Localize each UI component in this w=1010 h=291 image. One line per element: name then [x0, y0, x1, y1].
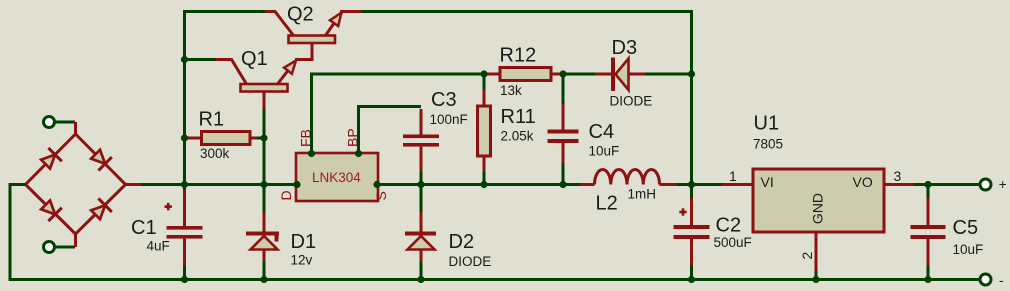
diode D3: [595, 58, 645, 92]
R12 body: [500, 68, 551, 81]
D1 cathode bar: [246, 232, 279, 236]
Q1 emitter lead: [278, 62, 296, 85]
svg-text:D3: D3: [612, 37, 638, 59]
node C3-D2 rail: [417, 181, 424, 188]
C3 top lead: [420, 109, 423, 135]
svg-text:GND: GND: [810, 193, 826, 224]
svg-text:-: -: [999, 273, 1004, 288]
U1 GND lead: [815, 232, 818, 273]
wire bridge top lead: [74, 122, 77, 135]
svg-text:U1: U1: [754, 113, 780, 135]
C2 bottom lead: [690, 239, 693, 268]
resistor R11: [478, 74, 491, 185]
wire D3 to right bus: [645, 73, 692, 76]
diode bridge top-right: [89, 148, 112, 171]
C5 bottom plate: [911, 235, 946, 239]
wire R1 right to Q1 base node: [256, 137, 264, 140]
node left bus / Q1 feed: [181, 56, 188, 63]
node FB-R12-R11: [480, 70, 487, 77]
zener diode D1: [246, 185, 279, 280]
U1 body: [753, 169, 884, 232]
node C2 bottom rail: [688, 276, 695, 283]
wire BP riser to C3: [359, 107, 422, 154]
wire input top to bridge: [55, 121, 75, 124]
C3 top plate: [403, 135, 439, 139]
C5 bottom lead: [927, 239, 930, 268]
svg-text:LNK304: LNK304: [312, 170, 361, 185]
C1 bottom plate: [167, 235, 203, 239]
C1 bottom lead: [183, 239, 186, 268]
node R11 rail: [480, 181, 487, 188]
svg-text:C3: C3: [431, 89, 457, 111]
C1 plus mark: [165, 205, 172, 208]
C5 top plate: [911, 225, 946, 229]
capacitor C4: [548, 74, 579, 185]
svg-text:+: +: [999, 177, 1007, 192]
svg-text:D2: D2: [449, 231, 475, 253]
wire bridge left to bottom rail: [10, 185, 980, 280]
diode bridge bottom-left: [39, 198, 62, 221]
R12 left lead: [484, 73, 500, 76]
wire Q1 base feed: [185, 58, 217, 61]
L2 coil: [595, 169, 660, 184]
R1 left lead: [188, 137, 202, 140]
Q1 base bar: [241, 84, 288, 92]
node D2 bottom rail: [417, 276, 424, 283]
svg-text:D: D: [278, 190, 294, 200]
diode D2: [405, 185, 436, 280]
svg-text:2: 2: [799, 252, 815, 260]
transistor Q2: [265, 12, 362, 60]
svg-text:300k: 300k: [200, 146, 230, 161]
node C4 rail: [559, 181, 566, 188]
resistor R1: [188, 132, 257, 145]
D2 cathode bar: [405, 232, 436, 236]
svg-text:4uF: 4uF: [147, 239, 170, 254]
C4 bottom plate: [548, 139, 579, 143]
svg-text:10uF: 10uF: [589, 144, 620, 159]
svg-text:C4: C4: [589, 121, 615, 143]
wire Q1 collector lead: [216, 60, 247, 85]
svg-text:R1: R1: [199, 109, 225, 131]
node L2-C2-U1: [688, 181, 695, 188]
D2 top lead: [420, 185, 423, 215]
svg-text:Q1: Q1: [241, 48, 268, 70]
svg-text:12v: 12v: [291, 253, 313, 268]
node R12-C4-D3: [559, 70, 566, 77]
C4 top plate: [548, 130, 579, 134]
wire input bottom to bridge: [55, 246, 75, 249]
C4 top lead: [562, 74, 565, 106]
resistor R12: [484, 68, 563, 81]
svg-text:VI: VI: [761, 174, 774, 190]
L2 left lead: [581, 183, 595, 186]
wire top rail right of Q2: [362, 12, 692, 185]
wire VO to output: [914, 183, 980, 186]
node pin FB: [308, 150, 315, 157]
C4 bottom lead: [562, 143, 565, 165]
wire bridge diamond: [26, 134, 126, 234]
inductor L2: [581, 169, 678, 184]
svg-text:13k: 13k: [500, 83, 522, 98]
node D1 bottom rail: [260, 276, 267, 283]
D1 bottom lead: [263, 250, 266, 265]
regulator U1 7805: [722, 168, 914, 280]
terminal input bottom: [44, 242, 55, 253]
svg-text:Q2: Q2: [287, 4, 314, 26]
wire right node to U1: [692, 183, 723, 186]
wire left vertical bus: [185, 12, 266, 185]
C2 bottom plate: [674, 235, 710, 239]
D3 cathode bar: [611, 58, 615, 92]
D1 triangle: [251, 236, 278, 250]
diode bridge bottom-right: [89, 198, 112, 221]
bridge rectifier BR1: [26, 122, 142, 247]
R12 right lead: [551, 73, 563, 76]
wire FB riser and top net: [312, 74, 485, 153]
capacitor C1: [165, 185, 203, 280]
wire bridge right stub: [126, 183, 142, 186]
Q1 base pin: [263, 92, 266, 110]
capacitor C3: [403, 109, 439, 185]
C1 top lead: [183, 185, 186, 193]
svg-text:1mH: 1mH: [628, 187, 657, 202]
svg-text:DIODE: DIODE: [610, 94, 653, 109]
svg-text:R11: R11: [501, 106, 536, 128]
svg-text:L2: L2: [596, 193, 618, 215]
svg-text:DIODE: DIODE: [449, 254, 492, 269]
C3 bottom lead: [420, 147, 423, 174]
capacitor C2: [674, 185, 710, 280]
Q1 emitter arrow: [284, 61, 296, 74]
LNK304 body: [296, 153, 378, 201]
svg-text:3: 3: [894, 168, 902, 184]
svg-text:10uF: 10uF: [953, 242, 984, 257]
R11 top lead: [483, 74, 486, 92]
svg-text:D1: D1: [291, 231, 317, 253]
node R1-Q1 base: [260, 134, 267, 141]
node D1 rail: [260, 181, 267, 188]
C1 top plate: [167, 226, 203, 230]
node D3 right bus: [688, 70, 695, 77]
Q2 base lead: [295, 43, 312, 60]
C2 top plate: [674, 225, 710, 229]
wire S pin rail: [378, 183, 581, 186]
D1 top lead: [263, 185, 266, 215]
terminal input top: [44, 117, 55, 128]
L2 right lead: [660, 183, 678, 186]
svg-text:R12: R12: [500, 45, 537, 67]
U1 VO lead: [884, 183, 914, 186]
node C5 top: [924, 181, 931, 188]
C2 plus mark: [679, 211, 686, 214]
R11 body: [478, 106, 491, 156]
D2 triangle: [408, 236, 435, 250]
D3 triangle: [616, 59, 629, 91]
node left bus / rail: [181, 181, 188, 188]
svg-text:2.05k: 2.05k: [501, 129, 534, 144]
Q2 emitter lead: [326, 12, 362, 36]
svg-text:1: 1: [729, 168, 737, 184]
node pin S: [373, 181, 380, 188]
svg-text:7805: 7805: [753, 137, 783, 152]
svg-text:S: S: [373, 191, 389, 200]
capacitor C5: [911, 185, 946, 280]
Q2 emitter arrow: [330, 13, 342, 27]
node U1 GND bottom rail: [812, 276, 819, 283]
D3 left lead: [595, 73, 611, 76]
wire Q2 collector lead: [265, 12, 294, 36]
R1 body: [202, 132, 251, 145]
node C1 bottom rail: [181, 276, 188, 283]
wire main DC rail left: [141, 183, 296, 186]
svg-text:C1: C1: [131, 217, 157, 239]
terminal output minus: [980, 274, 991, 285]
node pin BP: [355, 150, 362, 157]
R11 bottom lead: [483, 156, 486, 174]
node pin D: [293, 181, 300, 188]
C5 top lead: [927, 185, 930, 201]
wire R1 left stub: [185, 137, 191, 140]
svg-text:100nF: 100nF: [430, 112, 468, 127]
C2 top lead: [690, 185, 693, 201]
terminal output plus: [980, 179, 991, 190]
diode bridge top-left: [39, 148, 62, 171]
Q2 base bar: [289, 36, 336, 44]
svg-text:500uF: 500uF: [714, 235, 752, 250]
wire R12 to D3: [563, 73, 596, 76]
C3 bottom plate: [403, 143, 439, 147]
transistor Q1: [216, 60, 296, 110]
D2 bottom lead: [420, 250, 423, 265]
svg-text:C2: C2: [716, 215, 742, 237]
wire L2 to right node: [677, 183, 692, 186]
U1 VI lead: [722, 183, 753, 186]
wire Q1 base down to rail: [263, 109, 266, 185]
D1 zener tail: [275, 236, 279, 242]
IC U2 LNK304: [278, 128, 389, 201]
R1 right lead: [250, 137, 257, 140]
svg-text:C5: C5: [953, 217, 979, 239]
D3 right lead: [629, 73, 646, 76]
node C5 bottom rail: [924, 276, 931, 283]
node left bus / R1: [181, 134, 188, 141]
svg-text:VO: VO: [853, 174, 873, 190]
wire bridge bottom lead: [74, 232, 77, 247]
